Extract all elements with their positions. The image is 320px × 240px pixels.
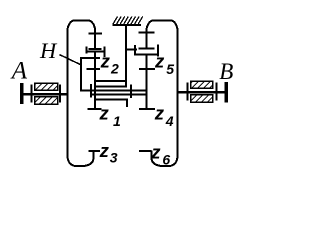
sleeve tick right	[130, 85, 132, 99]
planet z2 / sun z1 gear line	[94, 51, 96, 109]
planet z5 top cup	[135, 53, 159, 55]
sun z1 foot bar	[87, 108, 101, 110]
ring z3 bottom rim and hook	[67, 148, 93, 166]
svg-text:6: 6	[162, 152, 170, 168]
ring z6 hook tick	[139, 150, 152, 152]
sun z1 lower bracket	[95, 100, 127, 107]
sun z4 foot bar	[139, 108, 155, 110]
bearing A upper hatched block	[35, 83, 58, 90]
bearing B right tick	[216, 82, 218, 100]
svg-text:B: B	[219, 59, 233, 84]
bearing A lower hatched block	[35, 97, 58, 104]
sleeve tick left	[90, 84, 92, 98]
planet z5 / sun z4 gear line	[146, 54, 148, 109]
svg-text:z: z	[154, 102, 165, 123]
svg-text:z: z	[150, 142, 161, 163]
svg-text:z: z	[154, 50, 165, 71]
svg-text:1: 1	[113, 113, 121, 129]
ring z3 hook tick	[88, 150, 100, 152]
svg-text:2: 2	[110, 60, 119, 76]
svg-text:H: H	[39, 38, 58, 63]
ring z6 bottom rim and hook	[151, 148, 177, 166]
ring gear z3 outline (side + top arc + inner drop)	[67, 20, 95, 152]
svg-text:4: 4	[165, 113, 174, 129]
carrier H bottom arm (to right stage)	[80, 90, 146, 92]
svg-text:z: z	[99, 102, 110, 123]
ring z6 T-foot bar	[139, 47, 155, 49]
planet z2 top cup	[86, 50, 106, 52]
svg-text:5: 5	[166, 61, 174, 77]
shaft A	[23, 93, 66, 95]
bearing B upper hatched block	[191, 81, 213, 88]
fixed post	[125, 26, 127, 81]
shaft B	[179, 91, 225, 93]
shaft A end bar	[20, 83, 24, 104]
ring z6 / planet z5 mesh tick	[139, 32, 155, 34]
z5/z4 mesh tick	[139, 68, 155, 70]
svg-text:z: z	[100, 50, 111, 71]
bearing A right tick	[59, 85, 61, 103]
bearing B left tick	[186, 82, 188, 100]
svg-text:z: z	[99, 140, 110, 161]
ground (fixed support) hatched line	[112, 24, 141, 26]
fixed bearing block rectangle	[95, 81, 126, 86]
leader line H	[60, 55, 81, 65]
carrier H top edge	[80, 57, 100, 59]
shaft B end bar	[224, 82, 228, 103]
ring gear z6 outline (side + top arc + inner drop)	[146, 20, 177, 152]
bearing A left tick	[30, 85, 32, 103]
carrier H left side	[80, 57, 82, 91]
bearing B lower hatched block	[191, 95, 213, 102]
z2/z1 mesh tick	[86, 68, 100, 70]
ring z3 T-foot bar	[89, 48, 102, 50]
central sleeve shaft	[91, 94, 147, 96]
svg-text:3: 3	[110, 149, 118, 165]
svg-text:A: A	[10, 57, 28, 84]
post branch to z5 support	[126, 49, 137, 51]
ring z3 / planet z2 mesh tick	[89, 33, 102, 35]
